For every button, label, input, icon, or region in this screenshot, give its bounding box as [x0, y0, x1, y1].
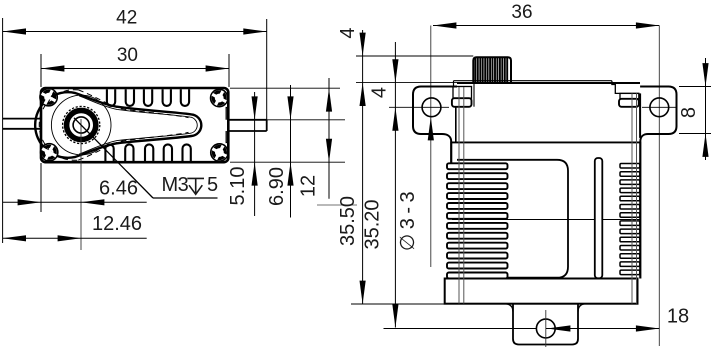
- right mounting tab (top view): [228, 120, 266, 131]
- output spline serrated ring: [63, 106, 100, 143]
- svg-text:M3: M3: [162, 174, 189, 196]
- left boss foot: [452, 98, 472, 107]
- svg-text:35.20: 35.20: [362, 199, 384, 249]
- svg-text:12: 12: [298, 175, 320, 197]
- bottom cooling fingers: [105, 144, 190, 161]
- bottom cap: [445, 279, 638, 304]
- bottom hole vertical centerline: [545, 310, 547, 347]
- svg-text:4: 4: [337, 27, 359, 38]
- screw bottom-right: [211, 144, 228, 161]
- arrow 6.46 left (outside): [18, 199, 41, 205]
- extension tab top to right: [267, 119, 345, 121]
- extension line 30 left: [40, 54, 42, 87]
- left heatsink fins: [447, 163, 508, 278]
- left mounting flange (side view): [413, 87, 457, 142]
- arrow 6.46 right (outside): [81, 199, 104, 205]
- arrow 5.10 down: [252, 96, 258, 119]
- arrow 35.50 bottom down: [360, 281, 366, 304]
- dimension 36 line: [433, 25, 659, 27]
- body right edge notch above tab: [226, 108, 228, 120]
- case top lid: [454, 80, 612, 82]
- output shaft screw hole: [73, 117, 89, 133]
- extension tab bottom right: [679, 133, 711, 135]
- arrow 30 left: [41, 65, 64, 71]
- dimension 42 line: [3, 31, 267, 33]
- arrow 18 right: [636, 325, 659, 331]
- left flange hole: [422, 98, 441, 117]
- dimension 5.10 line: [254, 92, 256, 216]
- svg-text:6.46: 6.46: [99, 177, 138, 199]
- horn hidden edge upper (dashed): [78, 90, 188, 118]
- pinion knurled cap: [473, 57, 511, 83]
- arrow 4 top (outside down): [360, 33, 366, 56]
- svg-text:35.50: 35.50: [337, 196, 359, 246]
- arrow 18 left: [547, 325, 570, 331]
- label M3 depth 5: [162, 174, 219, 196]
- svg-text:∅3-3: ∅3-3: [397, 187, 419, 251]
- dimension 12.46 line: [3, 237, 147, 239]
- dimension 4 / 35.50 line: [362, 30, 364, 304]
- flange band bottom line: [451, 141, 640, 143]
- left boss block: [453, 87, 472, 99]
- extension line left (42 / 12.46): [2, 18, 4, 243]
- svg-text:42: 42: [116, 8, 137, 29]
- case right mid edge: [639, 142, 641, 279]
- arrow up at hole center: [392, 107, 398, 130]
- arrow 42 right: [243, 28, 266, 34]
- arrow 36 right: [636, 22, 659, 28]
- output spline solid band: [67, 110, 96, 139]
- arrow 8 up (outside): [702, 134, 708, 157]
- top cooling fingers: [107, 89, 189, 106]
- right flange hole: [650, 98, 669, 117]
- dimension 4 / 35.20 line: [394, 42, 396, 328]
- right boss foot: [619, 99, 639, 107]
- arrow 35.20 bottom down: [392, 304, 398, 327]
- arrow 12 down: [326, 139, 332, 162]
- right mounting flange (side view): [640, 87, 676, 142]
- lid left end: [453, 81, 455, 87]
- extension line 30 right: [228, 54, 230, 87]
- bottom tab hole: [536, 319, 555, 338]
- case right upper edge: [639, 93, 641, 137]
- svg-text:12.46: 12.46: [92, 213, 142, 235]
- servo horn outer outline: [35, 92, 201, 158]
- dimension 18 line: [546, 328, 659, 330]
- lid right step: [612, 81, 640, 94]
- extension body top to right: [230, 87, 340, 89]
- screw top-right: [211, 89, 228, 106]
- servo horn inner rim circle: [51, 95, 111, 155]
- arrow 12 up: [326, 88, 332, 111]
- arrow 5.10 up: [252, 162, 258, 185]
- dimension 12 line: [328, 78, 330, 199]
- bottom mounting tab: [513, 304, 578, 345]
- depth symbol: [187, 178, 204, 194]
- right heatsink fins: [620, 164, 640, 275]
- stray extension segment: [317, 204, 357, 206]
- arrow 8 down (outside): [702, 63, 708, 86]
- right flange hole centerline horizontal: [642, 106, 677, 108]
- extension bottom hole center: [384, 328, 537, 330]
- body right edge notch below tab: [226, 131, 228, 143]
- servo horn inner rim line: [79, 96, 197, 154]
- extension hole center horizontal: [389, 106, 449, 108]
- M3 leader underline: [153, 197, 218, 199]
- extension case top: [356, 82, 457, 84]
- extension pinion top: [356, 55, 473, 57]
- svg-text:36: 36: [511, 2, 532, 23]
- svg-text:4: 4: [369, 87, 391, 98]
- bottom tab right fillet: [578, 304, 585, 312]
- extension body left edge below: [40, 163, 42, 212]
- arrow 36 left: [433, 22, 456, 28]
- case seam lines left: [458, 87, 460, 304]
- left mounting tab (top view): [3, 119, 41, 129]
- dimension 30 line: [41, 68, 229, 70]
- mid parting line: [452, 219, 640, 221]
- screw top-left: [40, 89, 57, 106]
- case top main edge: [457, 82, 640, 84]
- extension line right of 42: [266, 19, 268, 120]
- dimension 6.90 line: [290, 85, 292, 218]
- svg-text:5.10: 5.10: [227, 167, 249, 206]
- shaft vertical centerline: [80, 119, 82, 250]
- arrow 42 left: [3, 28, 26, 34]
- M3 leader line through hole: [74, 118, 153, 198]
- vertical slat: [595, 158, 603, 278]
- svg-text:18: 18: [667, 306, 689, 328]
- right boss block: [620, 93, 639, 98]
- dimension 8 line: [705, 58, 707, 160]
- arrow 12.46 left: [3, 235, 26, 241]
- svg-text:30: 30: [117, 45, 138, 66]
- arrow 6.90 down: [287, 96, 293, 119]
- extension body bottom to right: [230, 161, 345, 163]
- svg-text:5: 5: [207, 174, 218, 196]
- bottom tab left fillet: [506, 304, 513, 312]
- left hole centerline vertical: [430, 26, 432, 268]
- case left mid edge: [450, 142, 452, 164]
- pinion knurl hatching: [475, 57, 507, 82]
- horn hidden outline (dashed arc around boss): [39, 90, 78, 161]
- svg-text:6.90: 6.90: [266, 167, 288, 206]
- arrow 6.90 up: [287, 162, 293, 185]
- dimension 6.46 line: [3, 201, 147, 203]
- horn hidden edge lower (dashed): [78, 132, 188, 160]
- svg-text:8: 8: [678, 107, 700, 118]
- arrow 30 right: [206, 65, 229, 71]
- case seam lines right: [631, 93, 633, 303]
- screw bottom-left: [41, 144, 58, 161]
- middle rounded panel: [457, 160, 568, 278]
- arrow 12.46 right: [58, 235, 81, 241]
- case left upper edge: [455, 107, 457, 142]
- arrow 4 second (outside down): [392, 59, 398, 82]
- extension case bottom: [351, 303, 446, 305]
- gearbox edge under pinion: [473, 83, 475, 107]
- right hole centerline vertical: [658, 26, 660, 347]
- servo case body outline (top view): [41, 88, 228, 162]
- arrow up under left tab hole: [428, 117, 434, 140]
- arrow shared up at case top: [360, 83, 366, 106]
- extension tab top right: [679, 86, 711, 88]
